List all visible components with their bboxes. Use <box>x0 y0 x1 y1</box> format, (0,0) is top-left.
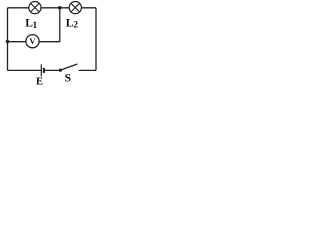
wire middle vertical <box>59 8 61 42</box>
wire voltmeter row <box>8 41 60 43</box>
svg-text:1: 1 <box>33 21 38 31</box>
switch S pivot dot <box>59 69 62 72</box>
node junction dot top (between L1 and L2) <box>58 6 62 10</box>
wire switch to bottom right corner <box>79 69 96 71</box>
svg-text:E: E <box>36 76 43 86</box>
background <box>0 0 99 86</box>
battery E long plate <box>40 64 42 76</box>
wire bottom left to battery <box>8 69 42 71</box>
wire left side <box>7 8 9 71</box>
svg-text:V: V <box>29 36 36 46</box>
node junction dot left (voltmeter tap) <box>6 40 10 44</box>
wire top side <box>8 7 97 9</box>
wire battery to switch pivot <box>44 69 60 71</box>
lamp L2 <box>69 2 81 14</box>
voltmeter V <box>26 35 39 48</box>
switch S lever <box>60 64 77 70</box>
lamp L1 <box>29 2 41 14</box>
wire right side <box>95 8 97 71</box>
battery E short thick plate <box>43 68 45 73</box>
svg-text:2: 2 <box>73 21 78 31</box>
svg-text:S: S <box>65 73 71 85</box>
